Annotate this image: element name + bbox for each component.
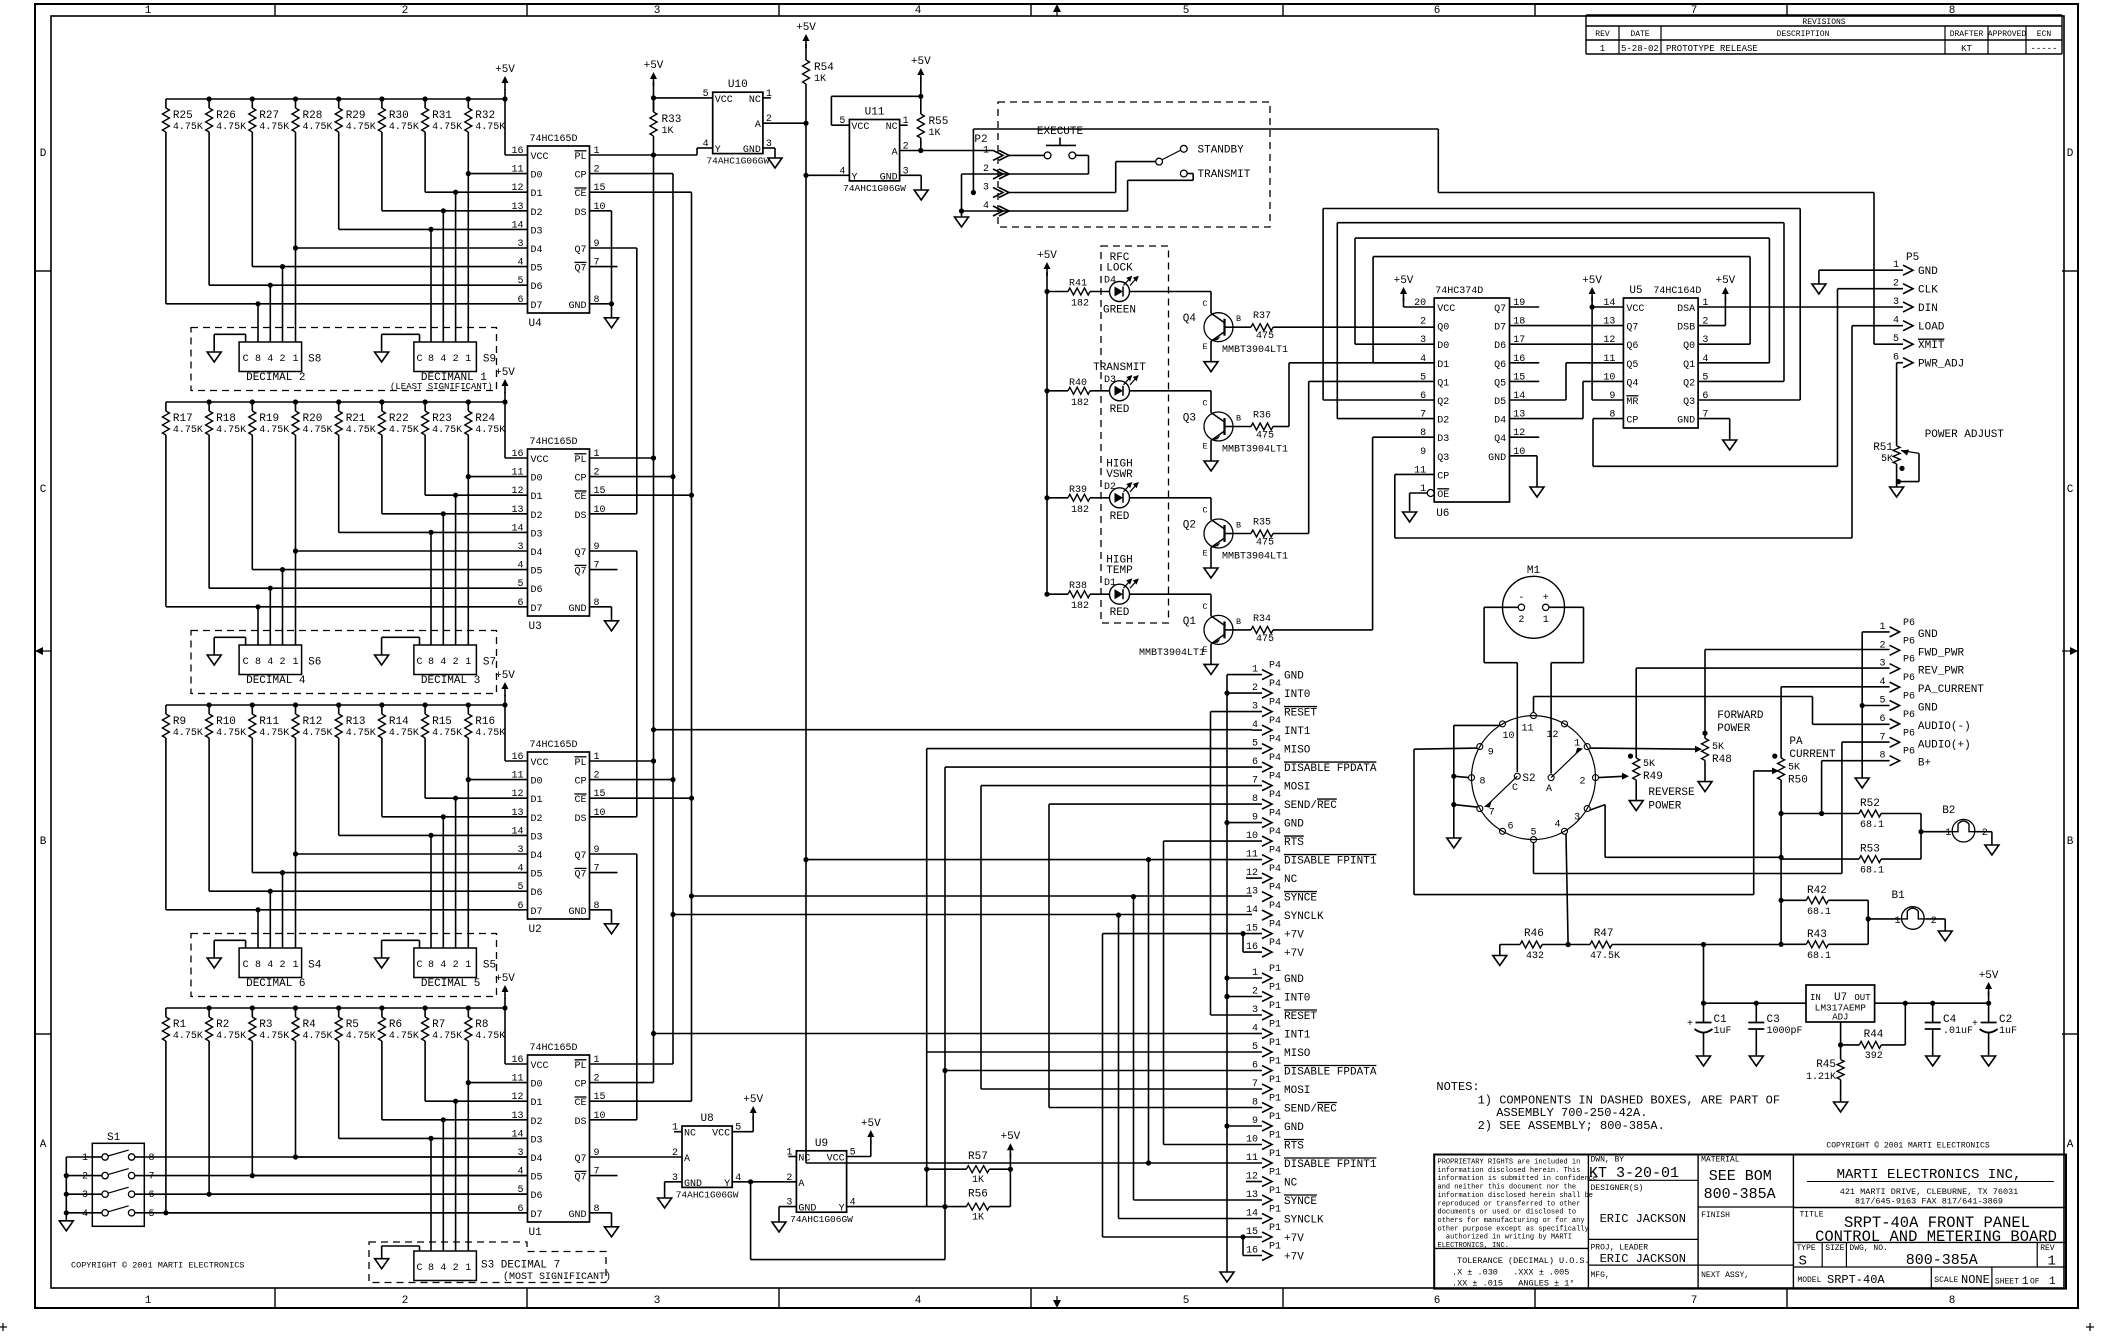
ground Q3 emitter xyxy=(1204,461,1218,471)
svg-text:S: S xyxy=(1799,1254,1807,1270)
svg-text:D2: D2 xyxy=(531,208,543,219)
wires S6 pins xyxy=(257,607,259,645)
svg-text:2: 2 xyxy=(453,960,459,971)
wire PL net / R33 vertical xyxy=(590,154,654,156)
wire P2 pin1 to EXECUTE xyxy=(1009,154,1044,156)
svg-text:LOCK: LOCK xyxy=(1106,263,1133,275)
svg-text:6: 6 xyxy=(1434,1295,1441,1307)
svg-text:Q4: Q4 xyxy=(1494,434,1506,445)
svg-text:R34: R34 xyxy=(1253,614,1271,625)
svg-text:GND: GND xyxy=(1918,703,1938,715)
svg-text:MISO: MISO xyxy=(1284,745,1311,757)
wire CP net vertical xyxy=(590,173,674,175)
ground S5 xyxy=(419,940,421,948)
wire GND U3 xyxy=(590,606,612,608)
svg-text:P4: P4 xyxy=(1269,772,1281,783)
revisions table xyxy=(1586,14,2062,16)
wire CE net vertical xyxy=(590,191,692,193)
svg-text:Q0: Q0 xyxy=(1683,341,1695,352)
svg-text:+5V: +5V xyxy=(743,1094,763,1106)
ground R45 xyxy=(1834,1102,1848,1112)
capacitor C1 1uF xyxy=(1703,1003,1705,1022)
wire SYNCLK link xyxy=(1118,915,1120,1218)
svg-text:11: 11 xyxy=(511,468,523,479)
svg-text:GND: GND xyxy=(1918,266,1938,278)
svg-text:GND: GND xyxy=(684,1179,702,1190)
svg-text:Q3: Q3 xyxy=(1437,453,1449,464)
svg-text:DECIMAL 4: DECIMAL 4 xyxy=(246,675,306,687)
svg-text:+: + xyxy=(1543,593,1549,604)
svg-text:P4: P4 xyxy=(1269,883,1281,894)
svg-text:800-385A: 800-385A xyxy=(1906,1252,1978,1269)
wire DISABLE FPDATA net xyxy=(945,766,1262,768)
svg-text:11: 11 xyxy=(511,771,523,782)
svg-text:1: 1 xyxy=(145,5,152,17)
svg-text:RESET: RESET xyxy=(1284,1011,1317,1023)
wires S7 pins xyxy=(430,532,432,645)
wire U5 VCC/MR xyxy=(1592,306,1623,308)
svg-text:8: 8 xyxy=(428,657,434,668)
svg-text:IN: IN xyxy=(1810,993,1821,1003)
ground R49 xyxy=(1629,801,1643,811)
wire U10 Y to PL xyxy=(697,147,713,149)
svg-text:MATERIAL: MATERIAL xyxy=(1701,1156,1740,1165)
dashed assembly box S6/S7 xyxy=(191,631,497,694)
svg-text:Y: Y xyxy=(851,172,857,183)
svg-text:R5: R5 xyxy=(346,1019,359,1031)
svg-text:DS: DS xyxy=(574,814,586,825)
svg-text:C: C xyxy=(1512,783,1518,794)
svg-text:4: 4 xyxy=(1879,677,1885,688)
wire U8 Y to U9 A xyxy=(732,1181,796,1183)
svg-text:C: C xyxy=(1202,299,1207,309)
ground S3 xyxy=(419,1246,421,1251)
svg-text:S8: S8 xyxy=(308,354,321,366)
transistor Q2 MMBT3904LT1 xyxy=(1210,498,1212,512)
title block drawn-by cells xyxy=(1588,1179,1698,1181)
svg-text:PL: PL xyxy=(575,1061,587,1072)
svg-text:2: 2 xyxy=(1579,777,1585,788)
svg-text:10: 10 xyxy=(1603,372,1615,383)
svg-text:14: 14 xyxy=(511,523,523,534)
svg-text:74AHC1G06GW: 74AHC1G06GW xyxy=(790,1214,853,1225)
svg-text:R11: R11 xyxy=(259,716,279,728)
wire +7V link xyxy=(1103,933,1244,935)
svg-text:R54: R54 xyxy=(814,62,834,74)
svg-text:D1: D1 xyxy=(1104,578,1116,589)
svg-text:13: 13 xyxy=(511,1111,523,1122)
ground S4 xyxy=(245,940,247,948)
svg-text:SIZE: SIZE xyxy=(1825,1244,1844,1253)
svg-text:D1: D1 xyxy=(531,1098,543,1109)
wire B2 pin2 ground xyxy=(1976,831,1992,833)
svg-text:P6: P6 xyxy=(1903,728,1915,739)
wire nested net B xyxy=(1337,222,1784,224)
svg-text:P6: P6 xyxy=(1903,673,1915,684)
svg-text:A: A xyxy=(2067,1139,2074,1151)
svg-text:3: 3 xyxy=(82,1190,88,1201)
svg-text:R57: R57 xyxy=(968,1151,988,1163)
dashed assembly box P2 switches xyxy=(998,102,1270,227)
svg-text:3: 3 xyxy=(1893,297,1899,308)
svg-text:R49: R49 xyxy=(1643,771,1663,783)
svg-text:3: 3 xyxy=(1574,813,1580,824)
ground B2 xyxy=(1985,845,1999,855)
svg-text:D1: D1 xyxy=(531,492,543,503)
svg-text:D4: D4 xyxy=(531,245,543,256)
resistor R15 4.75K xyxy=(424,705,426,714)
svg-text:RESET: RESET xyxy=(1284,708,1317,720)
svg-text:U10: U10 xyxy=(728,79,748,91)
svg-text:4.75K: 4.75K xyxy=(389,425,419,436)
svg-text:ERIC JACKSON: ERIC JACKSON xyxy=(1600,1252,1686,1266)
svg-text:information disclosed herein s: information disclosed herein shall be xyxy=(1438,1192,1593,1200)
svg-text:14: 14 xyxy=(511,826,523,837)
svg-text:D2: D2 xyxy=(531,511,543,522)
resistor R21 4.75K xyxy=(338,402,340,411)
svg-text:Q4: Q4 xyxy=(1183,313,1197,325)
svg-text:SYNCE: SYNCE xyxy=(1284,893,1317,905)
svg-text:REVISIONS: REVISIONS xyxy=(1802,18,1845,27)
svg-text:R22: R22 xyxy=(389,413,409,425)
wire P2 pin3 to common xyxy=(1009,192,1116,194)
svg-text:14: 14 xyxy=(511,1129,523,1140)
resistor R46 432 xyxy=(1500,944,1520,946)
svg-text:PA: PA xyxy=(1789,736,1803,748)
svg-text:RED: RED xyxy=(1110,607,1130,619)
svg-text:8: 8 xyxy=(255,354,261,365)
svg-text:ECN: ECN xyxy=(2037,30,2052,39)
resistor R25 4.75K xyxy=(165,99,167,108)
ground B1 xyxy=(1938,931,1952,941)
svg-text:+: + xyxy=(1972,1019,1978,1030)
svg-text:GND: GND xyxy=(1284,671,1304,683)
wire SYNCE taps xyxy=(692,895,1253,897)
svg-text:1: 1 xyxy=(465,1263,471,1274)
svg-text:475: 475 xyxy=(1256,331,1274,342)
svg-text:4.75K: 4.75K xyxy=(432,122,462,133)
svg-text:4.75K: 4.75K xyxy=(173,122,203,133)
svg-text:-: - xyxy=(1518,593,1524,604)
svg-text:4.75K: 4.75K xyxy=(259,728,289,739)
svg-text:182: 182 xyxy=(1071,505,1089,516)
svg-text:3: 3 xyxy=(983,183,989,194)
wire U5 CP / CLK chain xyxy=(1593,418,1623,420)
wire EXECUTE to P2 pin2 xyxy=(1076,154,1089,156)
svg-text:C: C xyxy=(416,354,422,365)
resistor R6 4.75K xyxy=(381,1008,383,1017)
wire R51 bottom / ground xyxy=(1896,464,1898,487)
svg-text:2: 2 xyxy=(402,1295,409,1307)
svg-text:74HC165D: 74HC165D xyxy=(530,1043,578,1054)
resistor R13 4.75K xyxy=(338,705,340,714)
svg-text:8: 8 xyxy=(255,960,261,971)
svg-text:information is submitted in co: information is submitted in confidence xyxy=(1438,1175,1598,1183)
svg-text:documents or used or disclosed: documents or used or disclosed to xyxy=(1438,1209,1577,1217)
svg-text:GND: GND xyxy=(798,1204,816,1215)
svg-text:4.75K: 4.75K xyxy=(475,122,505,133)
wire S2 pin11 AUDIO- net xyxy=(1533,697,1535,713)
svg-text:2: 2 xyxy=(453,657,459,668)
svg-text:R19: R19 xyxy=(259,413,279,425)
svg-text:1uF: 1uF xyxy=(1714,1026,1732,1037)
svg-text:6: 6 xyxy=(1434,5,1441,17)
svg-text:R38: R38 xyxy=(1069,581,1087,592)
svg-text:4.75K: 4.75K xyxy=(303,1031,333,1042)
svg-text:4: 4 xyxy=(82,1209,88,1220)
svg-text:1K: 1K xyxy=(662,126,674,137)
svg-text:MODEL: MODEL xyxy=(1797,1276,1821,1285)
svg-text:R50: R50 xyxy=(1788,775,1808,787)
svg-text:D5: D5 xyxy=(531,264,543,275)
wire R35 to U6 xyxy=(1273,533,1309,535)
wire P4 +7V jog xyxy=(1243,933,1262,935)
resistor R4 4.75K xyxy=(295,1008,297,1017)
svg-text:4.75K: 4.75K xyxy=(216,122,246,133)
svg-text:Q7: Q7 xyxy=(1626,323,1638,334)
svg-text:P1: P1 xyxy=(1269,1038,1281,1049)
svg-text:RTS: RTS xyxy=(1284,1141,1304,1153)
svg-text:SYNCLK: SYNCLK xyxy=(1284,911,1324,923)
resistor R38 182 xyxy=(1044,592,1049,597)
svg-text:4.75K: 4.75K xyxy=(303,122,333,133)
svg-text:5: 5 xyxy=(517,579,523,590)
svg-text:Q5: Q5 xyxy=(1626,360,1638,371)
svg-text:S9: S9 xyxy=(483,354,496,366)
svg-text:R25: R25 xyxy=(173,110,193,122)
svg-text:182: 182 xyxy=(1071,299,1089,310)
svg-text:2: 2 xyxy=(1518,615,1524,626)
svg-text:475: 475 xyxy=(1256,634,1274,645)
svg-text:POWER ADJUST: POWER ADJUST xyxy=(1925,429,2005,441)
svg-text:GND: GND xyxy=(880,172,898,183)
svg-text:6: 6 xyxy=(1507,821,1513,832)
svg-text:SCALE: SCALE xyxy=(1934,1276,1958,1285)
svg-text:DISABLE FPDATA: DISABLE FPDATA xyxy=(1284,1067,1377,1079)
svg-text:FORWARD: FORWARD xyxy=(1717,710,1764,722)
svg-text:ERIC JACKSON: ERIC JACKSON xyxy=(1600,1212,1686,1226)
svg-text:4.75K: 4.75K xyxy=(259,425,289,436)
BCD switch S5 xyxy=(414,948,477,978)
svg-text:8: 8 xyxy=(428,960,434,971)
svg-text:GND: GND xyxy=(1284,974,1304,986)
svg-text:13: 13 xyxy=(511,808,523,819)
wire U10 A out xyxy=(763,122,806,124)
svg-text:P4: P4 xyxy=(1269,920,1281,931)
connector M1 xyxy=(1503,576,1565,638)
resistor R55 1K xyxy=(920,96,922,114)
svg-text:XMIT: XMIT xyxy=(1918,340,1945,352)
svg-text:D5: D5 xyxy=(1494,397,1506,408)
wire R51 wiper loop xyxy=(1918,453,1920,481)
svg-text:Q7: Q7 xyxy=(575,567,587,578)
svg-text:P2: P2 xyxy=(974,134,987,146)
svg-text:M1: M1 xyxy=(1527,565,1541,577)
svg-text:2: 2 xyxy=(279,657,285,668)
wire R50 wiper xyxy=(1754,770,1775,772)
svg-text:5K: 5K xyxy=(1712,742,1724,753)
svg-text:+5V: +5V xyxy=(796,22,816,34)
svg-text:R20: R20 xyxy=(303,413,323,425)
svg-text:5: 5 xyxy=(517,276,523,287)
svg-text:D4: D4 xyxy=(531,1154,543,1165)
svg-text:P1: P1 xyxy=(1269,1242,1281,1253)
BCD switch S6 xyxy=(239,645,302,675)
svg-text:REV: REV xyxy=(1595,30,1610,39)
capacitor C4 .01uF xyxy=(1932,1003,1934,1022)
svg-text:D1: D1 xyxy=(531,795,543,806)
wire SYNCLK taps xyxy=(673,914,1252,916)
wire U10 GND xyxy=(763,147,775,149)
svg-text:+7V: +7V xyxy=(1284,1233,1304,1245)
svg-text:DWN, BY: DWN, BY xyxy=(1591,1156,1625,1165)
svg-text:5: 5 xyxy=(1183,5,1190,17)
svg-text:1: 1 xyxy=(465,960,471,971)
svg-text:4.75K: 4.75K xyxy=(173,1031,203,1042)
ground P2 xyxy=(961,211,963,217)
wire R49 top to REV_PWR xyxy=(1636,667,1889,669)
svg-text:1: 1 xyxy=(983,145,989,156)
svg-text:Y: Y xyxy=(724,1179,730,1190)
svg-text:REV: REV xyxy=(2040,1244,2055,1253)
svg-text:DSA: DSA xyxy=(1677,304,1695,315)
svg-text:.X ± .030 .XXX ± .005: .X ± .030 .XXX ± .005 xyxy=(1452,1268,1569,1278)
svg-text:+5V: +5V xyxy=(495,64,515,76)
svg-text:R55: R55 xyxy=(929,116,949,128)
svg-text:P4: P4 xyxy=(1269,827,1281,838)
svg-text:1: 1 xyxy=(292,960,298,971)
svg-text:4.75K: 4.75K xyxy=(475,728,505,739)
svg-text:D7: D7 xyxy=(531,301,543,312)
svg-text:R18: R18 xyxy=(216,413,236,425)
svg-text:MISO: MISO xyxy=(1284,1048,1311,1060)
switch S1 xyxy=(92,1143,144,1226)
svg-text:7: 7 xyxy=(1879,732,1885,743)
wire U6 D4 to U5 Q4 xyxy=(1510,418,1584,420)
svg-text:12: 12 xyxy=(1603,335,1615,346)
svg-text:11: 11 xyxy=(1521,724,1533,735)
svg-text:5: 5 xyxy=(1420,372,1426,383)
svg-text:1uF: 1uF xyxy=(1999,1026,2017,1037)
svg-text:information disclosed herein.: information disclosed herein. This xyxy=(1438,1167,1581,1175)
svg-text:2) SEE ASSEMBLY; 800-385A.: 2) SEE ASSEMBLY; 800-385A. xyxy=(1478,1119,1665,1133)
svg-text:D0: D0 xyxy=(531,171,543,182)
svg-text:7: 7 xyxy=(149,1172,155,1183)
svg-text:2: 2 xyxy=(453,354,459,365)
svg-text:NC: NC xyxy=(886,122,898,133)
resistor R47 47.5K xyxy=(1568,944,1590,946)
wire U8 A from U1 Q7 xyxy=(590,1156,683,1158)
svg-text:D3: D3 xyxy=(531,1135,543,1146)
svg-text:9: 9 xyxy=(1488,748,1494,759)
wire S2 pin1 to R48 wiper xyxy=(1590,748,1698,749)
resistor R20 4.75K xyxy=(295,402,297,411)
svg-text:+5V: +5V xyxy=(495,973,515,985)
svg-text:D2: D2 xyxy=(531,1117,543,1128)
svg-text:R56: R56 xyxy=(968,1189,988,1201)
svg-text:1: 1 xyxy=(465,354,471,365)
svg-text:R15: R15 xyxy=(432,716,452,728)
dashed assembly box S4/S5 xyxy=(191,934,497,997)
resistor R16 4.75K xyxy=(467,705,469,714)
IC U10 74AHC1G06GW xyxy=(713,92,763,153)
svg-text:CP: CP xyxy=(574,171,586,182)
svg-text:C: C xyxy=(1202,399,1207,409)
svg-text:4: 4 xyxy=(440,960,446,971)
svg-text:1K: 1K xyxy=(972,1175,984,1186)
svg-text:3: 3 xyxy=(654,1295,661,1307)
wire U11 A out to P2 pin1 xyxy=(900,150,993,152)
svg-text:VCC: VCC xyxy=(531,152,549,163)
wires D0-D7 rows U1 xyxy=(468,1082,527,1084)
svg-text:C2: C2 xyxy=(1999,1014,2012,1026)
svg-text:12: 12 xyxy=(511,486,523,497)
svg-text:A: A xyxy=(755,120,761,131)
wire P2 pin2/pin4 ground xyxy=(962,173,1010,175)
svg-text:5: 5 xyxy=(1893,334,1899,345)
svg-text:POWER: POWER xyxy=(1648,801,1681,813)
wire +5V bus bank U3 xyxy=(166,401,505,403)
svg-text:+5V: +5V xyxy=(495,670,515,682)
svg-text:VCC: VCC xyxy=(1437,304,1455,315)
svg-text:Q1: Q1 xyxy=(1437,378,1449,389)
svg-text:U1: U1 xyxy=(529,1227,543,1239)
svg-text:P1: P1 xyxy=(1269,964,1281,975)
svg-text:NEXT ASSY,: NEXT ASSY, xyxy=(1701,1271,1749,1280)
svg-text:13: 13 xyxy=(1246,887,1258,898)
resistor R45 1.21K xyxy=(1840,1045,1842,1060)
resistor R11 4.75K xyxy=(251,705,253,714)
svg-text:4: 4 xyxy=(1554,819,1560,830)
svg-text:VCC: VCC xyxy=(531,1061,549,1072)
transistor Q4 MMBT3904LT1 xyxy=(1210,292,1212,306)
svg-text:4.75K: 4.75K xyxy=(173,728,203,739)
svg-text:P4: P4 xyxy=(1269,698,1281,709)
ground U8 xyxy=(658,1198,672,1208)
svg-text:1: 1 xyxy=(82,1153,88,1164)
svg-text:4: 4 xyxy=(915,5,922,17)
IC U7 LM317AEMP xyxy=(1806,985,1875,1022)
svg-text:NC: NC xyxy=(749,95,761,106)
ground R46 xyxy=(1499,945,1501,956)
svg-text:DS: DS xyxy=(574,511,586,522)
svg-text:D6: D6 xyxy=(531,888,543,899)
svg-text:4: 4 xyxy=(517,864,523,875)
svg-text:P6: P6 xyxy=(1903,618,1915,629)
svg-text:C: C xyxy=(416,1263,422,1274)
ground P1 collector xyxy=(1220,1272,1234,1282)
svg-text:Q0: Q0 xyxy=(1437,323,1449,334)
wire R37 to U6 xyxy=(1273,326,1434,328)
svg-text:CE: CE xyxy=(575,189,587,200)
svg-text:P1: P1 xyxy=(1269,983,1281,994)
ground U6 xyxy=(1530,487,1544,497)
svg-text:TOLERANCE (DECIMAL) U.O.S.: TOLERANCE (DECIMAL) U.O.S. xyxy=(1457,1256,1590,1266)
svg-text:PWR_ADJ: PWR_ADJ xyxy=(1918,359,1964,371)
resistor R23 4.75K xyxy=(424,402,426,411)
svg-text:R35: R35 xyxy=(1253,518,1271,529)
svg-text:R26: R26 xyxy=(216,110,236,122)
svg-text:14: 14 xyxy=(1246,905,1258,916)
svg-text:Y: Y xyxy=(839,1204,845,1215)
svg-text:PROTOTYPE RELEASE: PROTOTYPE RELEASE xyxy=(1666,44,1758,54)
svg-text:D6: D6 xyxy=(531,282,543,293)
svg-text:SEE BOM: SEE BOM xyxy=(1709,1168,1772,1185)
svg-text:MMBT3904LT1: MMBT3904LT1 xyxy=(1222,552,1288,563)
wire P4 pin1/2 gnd collector xyxy=(1227,674,1262,676)
svg-text:CLK: CLK xyxy=(1918,285,1938,297)
svg-text:B+: B+ xyxy=(1918,758,1931,770)
